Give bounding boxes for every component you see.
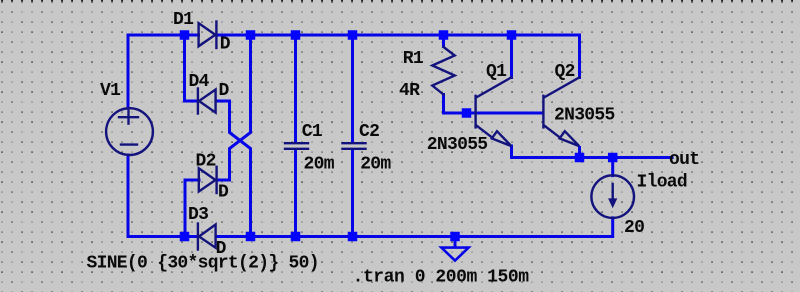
svg-text:2N3055: 2N3055 bbox=[554, 106, 615, 126]
svg-text:20m: 20m bbox=[304, 154, 335, 174]
svg-text:SINE(0 {30*sqrt(2)} 50): SINE(0 {30*sqrt(2)} 50) bbox=[87, 254, 319, 274]
svg-text:Iload: Iload bbox=[637, 173, 688, 193]
svg-text:D: D bbox=[218, 182, 229, 202]
svg-text:20: 20 bbox=[624, 218, 644, 238]
svg-text:C2: C2 bbox=[359, 122, 379, 142]
svg-text:V1: V1 bbox=[100, 81, 121, 101]
svg-text:R1: R1 bbox=[403, 49, 424, 69]
svg-text:D: D bbox=[219, 81, 230, 101]
svg-text:D: D bbox=[220, 35, 231, 55]
svg-text:D3: D3 bbox=[188, 205, 208, 225]
svg-text:D1: D1 bbox=[173, 10, 194, 30]
svg-text:D2: D2 bbox=[196, 152, 216, 172]
svg-text:out: out bbox=[669, 150, 699, 170]
svg-text:20m: 20m bbox=[360, 154, 391, 174]
svg-text:Q1: Q1 bbox=[486, 62, 507, 82]
svg-text:2N3055: 2N3055 bbox=[427, 135, 488, 155]
svg-text:D4: D4 bbox=[189, 72, 210, 92]
svg-text:Q2: Q2 bbox=[555, 62, 575, 82]
svg-text:4R: 4R bbox=[399, 81, 420, 101]
svg-text:.tran 0 200m 150m: .tran 0 200m 150m bbox=[353, 268, 530, 288]
svg-text:C1: C1 bbox=[302, 122, 323, 142]
